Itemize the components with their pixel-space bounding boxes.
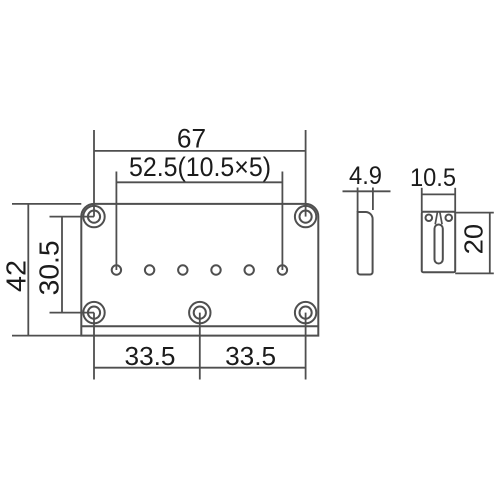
- svg-text:20: 20: [461, 224, 489, 255]
- svg-text:52.5(10.5×5): 52.5(10.5×5): [129, 152, 271, 182]
- svg-text:10.5: 10.5: [410, 164, 456, 192]
- svg-text:4.9: 4.9: [349, 162, 382, 190]
- svg-text:33.5: 33.5: [125, 341, 176, 371]
- svg-text:33.5: 33.5: [225, 341, 276, 371]
- svg-text:42: 42: [1, 260, 32, 292]
- svg-text:30.5: 30.5: [33, 240, 64, 295]
- svg-text:67: 67: [177, 123, 206, 153]
